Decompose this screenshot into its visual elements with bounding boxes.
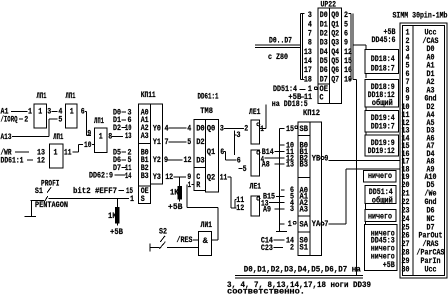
gate DD? LP1-b label (66, 91, 76, 101)
wire stub LE1-2 pin5 (239, 164, 247, 174)
TM8 input labels (196, 124, 205, 190)
KP11 pins 2 5 11 14 (125, 148, 132, 181)
svg-text:11: 11 (64, 148, 72, 158)
signals D0 D1 D2 to KP11 (113, 108, 126, 118)
gate DD? LP1-a label (37, 91, 47, 101)
svg-text:PROFI: PROFI (41, 179, 60, 189)
signal A9 to KP12 A3 (263, 204, 294, 214)
svg-text:DD45:6: DD45:6 (372, 35, 396, 45)
svg-text:&: & (203, 236, 208, 246)
svg-text:1: 1 (70, 106, 74, 116)
signal DD51:4 to UP22 OE (273, 84, 306, 94)
svg-text:ничего: ничего (368, 171, 392, 181)
svg-text:+5В: +5В (168, 202, 183, 212)
pin 5 gate2 (58, 114, 62, 124)
pin 3 gate1 output (47, 107, 51, 117)
power +5V label at R2 (168, 202, 183, 212)
svg-text:ЛЕ1: ЛЕ1 (249, 107, 261, 117)
svg-text:1: 1 (38, 106, 42, 116)
SIMM socket body (400, 23, 447, 278)
svg-text:3: 3 (237, 130, 241, 140)
pin 4 gate2 (58, 107, 62, 117)
svg-text:DD19:12: DD19:12 (368, 146, 395, 156)
UP22 right pin numbers (344, 10, 352, 84)
switch S1 label (35, 186, 51, 196)
wire KP11 Y0 to TM8 D0 (165, 124, 192, 134)
svg-text:13: 13 (286, 159, 294, 169)
annotation box DD19:4 DD19:7 (365, 111, 399, 133)
svg-text:+5В: +5В (110, 227, 123, 237)
power +5V to UP22 C (288, 92, 304, 102)
register UP22 body (318, 8, 342, 104)
svg-text:9: 9 (87, 129, 91, 139)
connector box2-box3 (365, 107, 367, 111)
svg-text:ТМ8: ТМ8 (200, 106, 213, 116)
xor gate 3 (LP1) body (50, 144, 64, 168)
svg-text:Y2: Y2 (153, 155, 161, 165)
svg-text:C23: C23 (261, 243, 273, 253)
svg-text:1: 1 (188, 180, 192, 190)
svg-text:+5В: +5В (383, 260, 395, 270)
header SIMM 30pin-1Mb (393, 11, 448, 21)
svg-text:1: 1 (54, 148, 58, 158)
svg-text:1: 1 (288, 219, 292, 229)
KP12 pin 10 (286, 140, 294, 150)
KP12 YB output (312, 153, 329, 163)
svg-text:1: 1 (99, 131, 103, 141)
svg-text:bit2 #EFF7: bit2 #EFF7 (73, 186, 117, 196)
xor gate 4 (LP1) body (95, 128, 108, 153)
pin 13 gate3 (37, 148, 45, 158)
svg-text:6: 6 (237, 155, 241, 165)
svg-text:КП11: КП11 (141, 90, 156, 100)
KP11 pins 3 6 10 13 (125, 108, 132, 141)
svg-text:1: 1 (130, 194, 134, 204)
KP11 OE and S labels (141, 186, 149, 204)
KP12 pin 15 with bubble (286, 124, 298, 134)
nor gate 1 (LE1) body (251, 120, 264, 144)
wire S2 to LI1 second input (167, 247, 199, 249)
data bus down right side (353, 79, 356, 276)
wire LE1-1 output to DD18:5 (260, 105, 267, 129)
svg-text:9: 9 (324, 153, 328, 163)
svg-text:3: 3 (220, 124, 224, 134)
bus double line from Z80 (255, 45, 301, 47)
annotation box nichego pin24 (365, 210, 396, 222)
KP12 SA S0 S1 labels (300, 219, 309, 252)
svg-text:9: 9 (164, 155, 168, 165)
svg-text:D0: D0 (196, 124, 205, 134)
svg-text:A3: A3 (141, 131, 149, 141)
annotation box DD51:4 obshij pins21-22 (365, 186, 396, 206)
nor gate 3 (LE1) body (251, 196, 269, 216)
xor gate 2 (LP1) body (66, 104, 78, 128)
svg-text:с Z80: с Z80 (268, 52, 288, 62)
svg-text:YB: YB (312, 153, 321, 163)
mux DD? KP11 label (141, 90, 156, 100)
wire TM8 Q1 to LE1-2 pin6 (220, 147, 240, 165)
svg-text:10: 10 (84, 140, 92, 150)
annotation box DD19:9 DD19:12 (365, 135, 399, 156)
svg-text:18: 18 (304, 74, 312, 84)
svg-text:14: 14 (125, 171, 132, 181)
wire S1 to KP11 S pin (49, 197, 130, 199)
svg-text:11: 11 (236, 195, 244, 205)
annotation na DD18:5 (272, 99, 308, 109)
KP11 pin 15 (126, 186, 133, 196)
nor gate 2 (LE1) body (251, 150, 264, 176)
svg-text:DD62:9: DD62:9 (89, 171, 113, 181)
wire gate2 out to gate4 pin9 (85, 111, 91, 135)
svg-text:5: 5 (187, 137, 191, 147)
connector box6-box7 (365, 204, 367, 210)
wire WR to gate3 pin13 (15, 151, 29, 153)
annotation +5V pin1 (384, 27, 396, 37)
pin 10 gate4 (84, 140, 92, 150)
KP12 pin 1 SA with bubble (288, 219, 296, 229)
svg-text:12: 12 (37, 156, 45, 166)
svg-text:12: 12 (165, 172, 173, 182)
mux KP11 body (139, 104, 163, 204)
wire LE1-2 output to KP12 B2 (265, 153, 295, 163)
and gate LI1 label (201, 220, 213, 230)
svg-text:Y0: Y0 (153, 124, 161, 134)
svg-text:D0..D7: D0..D7 (269, 35, 292, 45)
pin 1 gate1 (28, 107, 32, 117)
UP22 D0-D7 labels (320, 10, 328, 84)
svg-text:S1: S1 (300, 242, 309, 252)
wire A1 to gate1 pin1 (11, 110, 28, 112)
svg-text:A8: A8 (262, 160, 270, 170)
wire YB to SIMM pin17 A8 (329, 159, 400, 161)
nor gate LE1-2 label (250, 182, 262, 192)
svg-text:5: 5 (58, 114, 62, 124)
wire LI1 output (212, 239, 219, 241)
signal C14 to KP12 S0 (261, 235, 294, 245)
wire LE1-3 output to KP12 A2 (269, 198, 294, 208)
annotation box nichego pin19 (364, 171, 397, 183)
wire IORQ to gate1 pin2 (19, 118, 23, 120)
signal /WR label (1, 148, 13, 158)
junction branch to LE1-1 pin3 (235, 130, 241, 155)
svg-text:D0,D1,D2,D3,D4,D5,D6,D7 на: D0,D1,D2,D3,D4,D5,D6,D7 на (244, 265, 361, 275)
pin 9 gate4 (87, 129, 91, 139)
wire TM8 Q0 to LE1-1 pin2 (220, 124, 248, 134)
signal DD62:9 label (89, 171, 113, 181)
svg-text:D7: D7 (113, 163, 121, 173)
UP22 Q0-Q7 labels (331, 10, 339, 84)
switch S2 symbol (150, 236, 166, 252)
svg-text:DD61:1: DD61:1 (1, 156, 24, 166)
KP12 B0-B3 labels (300, 140, 309, 169)
nor gate LE1-1 label (249, 107, 261, 117)
signal A1 label (1, 107, 9, 117)
svg-text:5: 5 (243, 164, 247, 174)
svg-text:2: 2 (24, 114, 28, 124)
svg-text:общий: общий (372, 194, 393, 205)
pin 11 gate3 output (64, 148, 72, 158)
wire gate1 out to gate2 pin4 (52, 110, 58, 112)
note line 2 (227, 287, 305, 294)
svg-text:DD19:7: DD19:7 (371, 122, 395, 132)
wire DD62:9 to KP11 pin14 (115, 174, 126, 176)
annotation box DD18:9 DD18:12 obshij (365, 80, 399, 109)
flipflop TM8 label (200, 106, 213, 116)
svg-text:4: 4 (187, 124, 191, 134)
svg-text:S1: S1 (35, 186, 43, 196)
svg-text:ЛП1: ЛП1 (53, 132, 63, 142)
svg-text:Q1: Q1 (207, 147, 216, 157)
bus bracket right of UP22 (348, 13, 353, 79)
svg-text:A13: A13 (1, 132, 12, 142)
svg-text:SIMM 30pin-1Mb: SIMM 30pin-1Mb (393, 11, 448, 21)
KP11 input labels A0-A3 (141, 108, 149, 141)
signal B14 to KP12 B1 (262, 147, 294, 157)
select line SB/B0/SA common vertical with ground bar (276, 128, 287, 231)
svg-text:ЛИ1: ЛИ1 (201, 220, 213, 230)
svg-text:D7: D7 (320, 74, 328, 84)
svg-text:Y3: Y3 (153, 172, 161, 182)
svg-text:Q0: Q0 (207, 124, 216, 134)
annotation DD45:6 pin2 (372, 35, 396, 45)
svg-text:15: 15 (286, 124, 294, 134)
wire gate4 out to KP11 pin13 (112, 135, 123, 137)
bracket LE1-3 pins 11-12 (235, 195, 244, 208)
bus bracket left of UP22 (301, 13, 305, 79)
svg-text:6: 6 (81, 107, 85, 117)
KP12 YA output (312, 219, 329, 229)
KP12 SB label (300, 124, 309, 134)
label PENTAGON (35, 200, 68, 210)
bus label c Z80 (268, 52, 288, 62)
svg-text:PENTAGON: PENTAGON (35, 200, 68, 210)
svg-text:13: 13 (125, 131, 132, 141)
svg-text:SA: SA (300, 219, 309, 229)
svg-text:общий: общий (372, 97, 393, 108)
connector box3-box4 (365, 132, 367, 135)
svg-text:YA: YA (312, 219, 321, 229)
bottom bus label D0-D7 (244, 265, 361, 275)
svg-text:8: 8 (108, 132, 112, 142)
signal A8 to KP12 B3 (262, 159, 294, 169)
TM8 R input path from AND gate (187, 180, 218, 240)
signal /RES label (177, 235, 193, 245)
svg-text:A3: A3 (300, 204, 309, 214)
svg-text:D2: D2 (113, 123, 121, 133)
svg-text:SB: SB (300, 124, 309, 134)
wire stub KP12 A0 (281, 185, 294, 195)
svg-text:+5В: +5В (288, 92, 301, 102)
mux KP12 label (303, 108, 320, 118)
wire A13 to gate2 pin5 (12, 119, 58, 136)
svg-text:B3: B3 (300, 160, 309, 170)
gate LP1-c label (53, 132, 63, 142)
svg-text:S2: S2 (159, 226, 167, 236)
svg-text:1: 1 (260, 124, 264, 134)
svg-text:7: 7 (324, 219, 328, 229)
svg-text:ЛП1: ЛП1 (37, 91, 47, 101)
signal DD61:1 label (1, 156, 24, 166)
switch S1 common with ground (25, 196, 48, 216)
annotation box DD18:4 DD18:7 (365, 50, 399, 74)
xor gate 1 (LP1) body (34, 104, 47, 128)
svg-text:11: 11 (286, 147, 294, 157)
pin 2 gate1 (24, 114, 28, 124)
pin 6 gate2 output (81, 107, 85, 117)
svg-text:D3: D3 (196, 156, 205, 166)
svg-text:1К: 1К (170, 188, 179, 198)
svg-text:C: C (320, 93, 324, 103)
svg-text:B14: B14 (262, 147, 274, 157)
resistor R2 1K pullup (170, 177, 182, 202)
svg-text:5: 5 (290, 192, 294, 202)
bottom bus double line (235, 276, 363, 279)
register UP22 label (321, 0, 337, 10)
svg-text:2: 2 (244, 124, 248, 134)
wire KP11 Y1 to TM8 D2 (165, 137, 192, 147)
KP12 A0-A3 labels (300, 185, 309, 214)
svg-text:соответственно.: соответственно. (227, 287, 305, 294)
wire RES to LI1 (193, 239, 199, 241)
mux KP12 body (298, 122, 322, 256)
pin 8 gate4 output (108, 132, 112, 142)
svg-text:2: 2 (290, 243, 294, 253)
wire EFF7 to KP11 pin15 (119, 190, 125, 192)
switch S2 label (159, 226, 167, 236)
signal B15 to KP12 A1 (263, 192, 294, 202)
svg-text:30: 30 (402, 265, 410, 275)
svg-text:11: 11 (304, 92, 312, 102)
svg-text:R: R (196, 180, 201, 190)
KP11 Y output labels (153, 124, 161, 183)
annotation box pins26-30 (365, 225, 398, 271)
svg-text:DD18:7: DD18:7 (371, 63, 395, 73)
svg-text:B3: B3 (141, 171, 149, 181)
svg-text:3: 3 (47, 107, 51, 117)
signal C23 to KP12 S1 (261, 243, 294, 253)
wire DD61 to gate3 pin12 (27, 159, 33, 161)
svg-text:6: 6 (220, 147, 224, 157)
power +5V label at R1 (110, 227, 123, 237)
signal /IORQ label (1, 114, 18, 124)
label PROFI (41, 179, 60, 189)
KP11 input labels B0-B3 (141, 148, 149, 181)
svg-text:7: 7 (165, 137, 169, 147)
svg-text:КП12: КП12 (303, 108, 320, 118)
svg-text:/RES: /RES (177, 235, 193, 245)
wire KP11 Y2 to TM8 D3 (164, 155, 192, 165)
svg-text:Q2: Q2 (207, 173, 216, 183)
pin 12 gate3 (37, 156, 45, 166)
svg-text:A9: A9 (263, 204, 271, 214)
signal A13 label (1, 132, 12, 142)
bus branch to annotation boxes (353, 45, 366, 49)
wire KP11 Y3 to TM8 C (165, 172, 191, 182)
KP11 pin 1 (130, 194, 134, 204)
svg-text:B15: B15 (263, 192, 275, 202)
wire gate3 out to gate4 pin10 (73, 145, 95, 152)
svg-text:1: 1 (28, 107, 32, 117)
svg-text:4: 4 (165, 124, 169, 134)
gate LP1-d label (94, 116, 104, 126)
UP22 pin 1 OE with bubble (308, 84, 328, 94)
svg-text:12: 12 (184, 155, 192, 165)
wire TM8 Q2 to LE1-3 pin12 (220, 173, 245, 214)
note line 1 legs DD39 (227, 280, 371, 290)
and gate LI1 body (199, 232, 212, 256)
svg-text:/IORQ: /IORQ (1, 114, 18, 124)
svg-text:Y1: Y1 (153, 137, 161, 147)
resistor R1 1K pullup (108, 198, 120, 225)
UP22 pin 11 C (304, 92, 324, 103)
svg-text:Q7: Q7 (331, 74, 339, 84)
SIMM pin numbers and names (402, 28, 445, 275)
svg-text:S: S (141, 194, 145, 204)
bus label D0..D7 (269, 35, 292, 45)
svg-text:ЛЕ1: ЛЕ1 (250, 182, 262, 192)
svg-text:ничего: ничего (368, 212, 392, 222)
connector box1-box2 (365, 74, 367, 79)
svg-text:DD61:1: DD61:1 (198, 92, 219, 102)
svg-text:D2: D2 (196, 137, 205, 147)
connector box7-box8 (365, 222, 367, 225)
svg-text:ЛП1: ЛП1 (66, 91, 76, 101)
wire YA to SIMM pin18 A9 (329, 169, 400, 224)
svg-text:1К: 1К (108, 211, 117, 221)
TM8 output labels (207, 124, 216, 183)
TM8 body (194, 120, 218, 193)
UP22 left pin numbers (304, 10, 312, 84)
svg-text:11: 11 (220, 173, 228, 183)
signal bit2 #EFF7 label (73, 186, 117, 196)
svg-text:3: 3 (290, 204, 294, 214)
signals D5 D6 D7 to KP11 (113, 148, 126, 158)
svg-text:ЛП1: ЛП1 (94, 116, 104, 126)
flipflop DD61:1 label (198, 92, 219, 102)
svg-text:Ucc: Ucc (425, 265, 437, 275)
